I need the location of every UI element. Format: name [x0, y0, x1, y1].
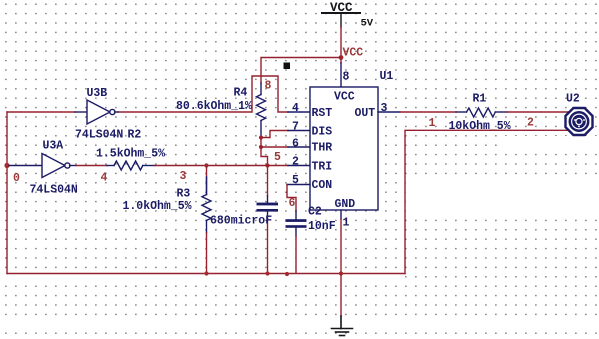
svg-text:OUT: OUT [355, 107, 376, 120]
junction R3 top [204, 163, 208, 167]
pin 1 GND lead [340, 210, 342, 219]
svg-text:5: 5 [292, 174, 299, 187]
svg-text:R1: R1 [473, 93, 487, 106]
svg-text:3: 3 [381, 102, 388, 115]
wire U2 bottom terminal to ground rail [405, 130, 572, 273]
wire U3B output to RST (over the top) [118, 76, 288, 112]
pin 8 lead of U1 [340, 63, 342, 87]
wire to U3B input [7, 111, 75, 113]
wire R2 to TRI node [155, 165, 268, 167]
wire OUT to R1 [400, 111, 456, 113]
wire pin8 lead red part [340, 58, 342, 64]
svg-text:R3: R3 [177, 188, 191, 201]
svg-text:74LS04N: 74LS04N [30, 184, 78, 197]
junction TRI node [265, 163, 269, 167]
junction R4 bottom / DIS [259, 135, 263, 139]
svg-text:7: 7 [292, 121, 299, 134]
svg-text:TRI: TRI [312, 161, 333, 174]
capacitor C1 680microF [257, 166, 279, 274]
svg-text:2: 2 [527, 117, 534, 130]
wire VCC rail down to net VCC junction [340, 27, 342, 58]
resistor R4 [257, 83, 266, 138]
wire DIS step [261, 131, 288, 138]
white band bottom-left [0, 317, 599, 329]
pin 5 CON lead [287, 184, 310, 186]
pin 4 RST lead [288, 111, 310, 113]
resistor R1 [456, 108, 507, 117]
wire THR down-step to TRI node [261, 147, 268, 166]
pin 3 OUT lead [378, 111, 400, 113]
junction at net VCC [339, 55, 344, 60]
svg-text:U3B: U3B [87, 87, 108, 100]
svg-text:R4: R4 [234, 87, 248, 100]
ground [332, 316, 353, 336]
black marker square [284, 63, 291, 70]
svg-text:RST: RST [312, 107, 333, 120]
wire ground loop left vertical [6, 112, 8, 274]
pin 7 DIS lead [288, 130, 310, 132]
pin 2 TRI lead [288, 165, 310, 167]
buzzer U2 [566, 108, 593, 135]
svg-text:5: 5 [274, 151, 281, 164]
junction R3 bottom [204, 271, 208, 275]
white band under U2 [498, 136, 599, 151]
svg-text:DIS: DIS [312, 126, 333, 139]
svg-text:80.6kOhm_1%: 80.6kOhm_1% [176, 100, 252, 113]
op-amp-box U1 555 timer [310, 87, 378, 211]
svg-text:8: 8 [265, 80, 272, 93]
svg-text:10nF: 10nF [308, 220, 336, 233]
capacitor C2 10nF [286, 211, 307, 273]
junction THR [259, 145, 263, 149]
svg-text:1.5kOhm_5%: 1.5kOhm_5% [96, 148, 165, 161]
svg-text:GND: GND [335, 198, 356, 211]
svg-text:CON: CON [312, 179, 333, 192]
resistor R3 [202, 166, 211, 274]
wire R1 to U2 [507, 111, 572, 113]
svg-text:4: 4 [292, 102, 299, 115]
svg-text:1: 1 [429, 117, 436, 130]
svg-text:1.0kOhm_5%: 1.0kOhm_5% [123, 200, 192, 213]
wire THR [261, 146, 288, 148]
wire CON to C2 [287, 185, 296, 212]
svg-text:0: 0 [13, 172, 20, 185]
svg-text:R2: R2 [128, 129, 142, 142]
wire VCC junction to R4 column [261, 58, 341, 84]
svg-text:THR: THR [312, 142, 333, 155]
bottom ground rail wire [7, 273, 405, 275]
wire U3A out to R2 [76, 165, 107, 167]
svg-text:74LS04N: 74LS04N [75, 129, 123, 142]
inverter U3B [75, 100, 118, 124]
junction U3A input [4, 163, 9, 168]
junction C1 bottom [265, 271, 269, 275]
svg-text:VCC: VCC [343, 47, 364, 60]
svg-text:4: 4 [101, 172, 108, 185]
inverter U3A [9, 154, 76, 178]
power symbol VCC (5V rail) [322, 1, 360, 27]
wire R4 bottom to THR junction [260, 138, 262, 148]
svg-text:U3A: U3A [43, 140, 64, 153]
white band right-middle [406, 178, 599, 217]
svg-text:3: 3 [180, 170, 187, 183]
svg-text:VCC: VCC [330, 1, 353, 15]
svg-text:10kOhm_5%: 10kOhm_5% [449, 120, 511, 133]
svg-text:VCC: VCC [334, 91, 355, 104]
svg-text:1: 1 [343, 217, 350, 230]
svg-text:6: 6 [292, 138, 299, 151]
svg-text:C2: C2 [308, 206, 322, 219]
pin 6 THR lead [288, 146, 310, 148]
wire GND pin to bottom rail [340, 219, 342, 274]
svg-text:U2: U2 [566, 93, 580, 106]
wire TRI [268, 165, 289, 167]
svg-text:680microF: 680microF [210, 215, 272, 228]
resistor R2 [107, 161, 155, 170]
svg-text:5V: 5V [361, 18, 374, 30]
white band under bottom wire [0, 276, 404, 285]
wire ground rail to ground symbol [340, 274, 342, 317]
svg-text:8: 8 [343, 71, 350, 84]
junction GND column [339, 271, 343, 275]
svg-text:6: 6 [289, 197, 296, 210]
svg-text:2: 2 [292, 156, 299, 169]
svg-text:U1: U1 [380, 70, 394, 83]
junction stray node [285, 272, 289, 276]
